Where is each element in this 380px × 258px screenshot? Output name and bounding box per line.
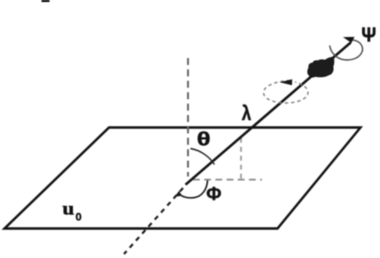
psi arrowhead (343, 37, 355, 43)
rod dashed extension below plane (124, 188, 183, 254)
svg-text:0: 0 (76, 212, 82, 224)
svg-text:u: u (62, 199, 74, 219)
body blob (308, 57, 334, 77)
phi arrowhead (175, 191, 182, 197)
rod (solid axis line) (186, 42, 351, 184)
theta arc (191, 149, 215, 165)
rotation arrowhead (near lambda) (280, 79, 293, 85)
dashed rotation ellipse around rod (near lambda) (264, 81, 309, 104)
svg-text:Ψ: Ψ (361, 25, 376, 47)
stray mark top (42, 0, 50, 2)
vertical dashed drop from rod to horizontal line (240, 138, 242, 179)
svg-text:Φ: Φ (206, 183, 221, 204)
vertical dashed reference line (187, 58, 189, 177)
phi arc (180, 180, 208, 198)
svg-text:λ: λ (242, 101, 252, 124)
psi rotation loop (330, 40, 363, 60)
horizontal dashed projection line (193, 179, 262, 181)
svg-text:θ: θ (197, 128, 211, 149)
plane quadrilateral u0 (5, 128, 361, 229)
